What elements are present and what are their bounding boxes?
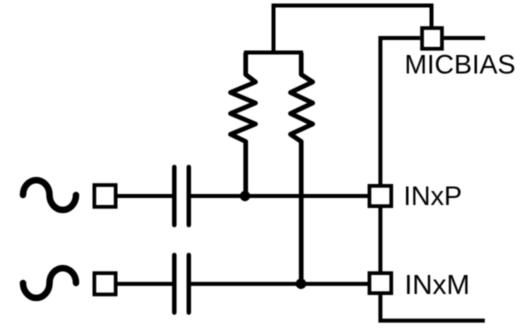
capacitor C2 right plate (187, 255, 192, 313)
junction node dot (R1 bottom to INxP wire) (240, 191, 250, 201)
junction node dot (R2 bottom to INxM wire) (296, 279, 307, 290)
wire C2 to INxM terminal (191, 282, 370, 286)
svg-text:INxM: INxM (405, 269, 470, 300)
capacitor C2 left plate (172, 255, 177, 313)
wire C1 to INxP terminal (191, 194, 370, 198)
wire rail between INxP and INxM (378, 207, 382, 272)
svg-text:INxP: INxP (404, 181, 463, 211)
capacitor C1 right plate (187, 167, 192, 225)
MICBIAS terminal square (422, 28, 442, 49)
wire top horizontal (resistor stub to MICBIAS) (274, 6, 432, 53)
terminal square for V2 (94, 273, 115, 294)
AC source V2 (sine symbol, bottom row) (23, 268, 76, 298)
wire MICBIAS left segment + right rail down to INxP (380, 38, 420, 184)
resistor R2 (291, 53, 313, 282)
AC source V1 (sine symbol, top row) (23, 180, 76, 210)
wire below INxM to bottom right (380, 294, 484, 321)
wire resistor top bar (244, 51, 303, 55)
wire V2 terminal to C2 (116, 282, 173, 286)
INxP terminal square (369, 186, 391, 206)
svg-text:MICBIAS: MICBIAS (405, 50, 516, 80)
wire V1 terminal to C1 (115, 194, 173, 198)
capacitor C1 left plate (172, 167, 177, 225)
wire MICBIAS right segment (444, 36, 485, 40)
terminal square for V1 (94, 185, 115, 207)
INxM terminal square (369, 273, 391, 293)
resistor R1 (231, 53, 256, 194)
